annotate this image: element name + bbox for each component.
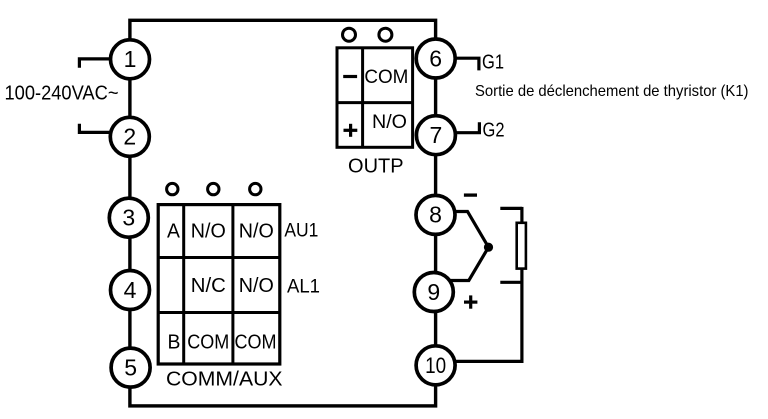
svg-text:N/C: N/C <box>191 275 226 297</box>
OUTP relay circle A <box>343 28 356 41</box>
terminal 9 <box>414 273 453 312</box>
thermocouple probe wires <box>450 212 489 281</box>
COMM relay circle C <box>250 183 261 194</box>
terminal 4 <box>111 271 150 310</box>
svg-text:100-240VAC~: 100-240VAC~ <box>5 82 119 104</box>
thermocouple minus mark <box>464 193 477 196</box>
svg-text:1: 1 <box>124 46 137 72</box>
thermocouple junction dot <box>484 243 493 252</box>
OUTP relay circle B <box>379 28 392 41</box>
svg-text:7: 7 <box>430 122 443 148</box>
wire G2 <box>455 122 479 132</box>
resistor element <box>517 223 526 269</box>
COMM/AUX terminal block <box>158 205 280 364</box>
svg-text:Sortie de déclenchement de thy: Sortie de déclenchement de thyristor (K1… <box>475 83 749 100</box>
COMM relay circle A <box>167 183 178 194</box>
svg-text:COM: COM <box>364 66 408 88</box>
svg-text:AL1: AL1 <box>287 277 320 298</box>
terminal 2 <box>110 117 149 156</box>
sensor break stub bottom <box>500 281 522 284</box>
svg-text:COM: COM <box>187 331 229 353</box>
terminal 7 <box>416 116 455 155</box>
svg-text:N/O: N/O <box>191 221 226 243</box>
svg-text:N/O: N/O <box>239 221 274 243</box>
svg-text:G2: G2 <box>483 119 505 141</box>
OUTP terminal block <box>337 48 413 148</box>
sensor break stub top <box>500 207 522 210</box>
terminal 8 <box>416 195 455 234</box>
svg-text:OUTP: OUTP <box>348 155 404 177</box>
svg-text:9: 9 <box>427 279 440 305</box>
COMM relay circle B <box>208 183 219 194</box>
svg-text:G1: G1 <box>482 52 504 74</box>
svg-text:8: 8 <box>429 202 442 228</box>
svg-text:N/O: N/O <box>372 111 407 133</box>
terminal 1 <box>111 40 150 79</box>
terminal 6 <box>416 39 455 78</box>
terminal 5 <box>111 348 150 387</box>
terminal 3 <box>109 198 148 237</box>
svg-text:B: B <box>168 331 181 353</box>
OUTP plus sign <box>344 124 358 137</box>
wire G1 <box>455 58 479 70</box>
svg-text:3: 3 <box>122 205 135 231</box>
svg-text:A: A <box>167 221 181 243</box>
svg-text:COM: COM <box>235 331 277 353</box>
thermocouple plus mark <box>464 295 477 308</box>
AC supply wire L1 <box>79 59 111 68</box>
wire resistor top riser <box>520 207 523 223</box>
svg-text:N/O: N/O <box>239 275 274 297</box>
svg-text:4: 4 <box>124 277 137 303</box>
wire resistor bottom to terminal 10 <box>455 269 522 362</box>
svg-text:5: 5 <box>124 354 137 380</box>
OUTP minus sign <box>343 75 357 78</box>
svg-text:2: 2 <box>123 124 136 150</box>
svg-text:COMM/AUX: COMM/AUX <box>166 368 283 391</box>
AC supply wire L2 <box>79 124 111 133</box>
svg-text:10: 10 <box>425 353 446 378</box>
device outline rect <box>130 20 436 406</box>
svg-text:AU1: AU1 <box>284 221 318 242</box>
svg-text:6: 6 <box>429 45 442 71</box>
terminal 10 <box>416 346 455 385</box>
